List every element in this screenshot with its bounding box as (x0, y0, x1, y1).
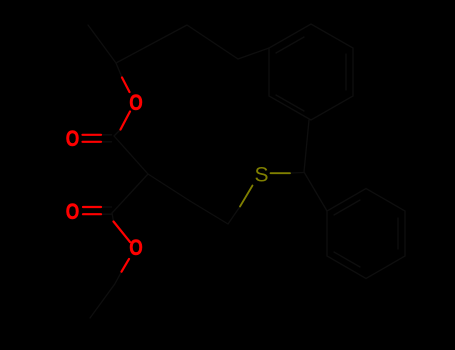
top long chain bond (116, 25, 187, 63)
M2-S dark half (228, 207, 240, 225)
svg-text:O: O (66, 200, 80, 224)
svg-text:S: S (255, 163, 269, 186)
O1-CH2 red half (122, 78, 130, 93)
bond C2-O4 dark half (112, 213, 114, 222)
S-T olive half (271, 172, 291, 174)
chain M1-M2 (190, 201, 228, 224)
bottom ethyl CH3 (90, 284, 115, 318)
ring A inner aromatic lines (276, 37, 346, 111)
bond C1-C0 (114, 136, 148, 174)
bond T-ringA (304, 120, 309, 172)
svg-text:O: O (66, 127, 80, 151)
S-T dark half (290, 172, 304, 175)
olive sulfur bonds (240, 173, 290, 206)
C1=O2 double bond red halves (83, 134, 102, 136)
C2=O3 dark halves (101, 206, 112, 208)
svg-text:O: O (129, 91, 143, 115)
chain into ring A (238, 48, 269, 59)
red oxygen bonds (83, 78, 131, 272)
S-M2 olive half (240, 186, 253, 207)
bond O4-CH2 dark half (115, 272, 122, 284)
chain C0-M1 (148, 174, 190, 201)
bond O1-C1 dark half (114, 130, 121, 137)
top chain descent (187, 25, 238, 59)
C2=O3 double bond red halves (83, 206, 101, 208)
O4-CH2 red half (122, 259, 130, 272)
bond T-ringC (304, 172, 327, 211)
faint carbon skeleton (88, 24, 405, 318)
ring A hexagon (269, 24, 353, 120)
svg-text:O: O (129, 236, 143, 260)
bond C0-C2 (112, 174, 148, 213)
ring C hexagon (327, 189, 405, 279)
C1=O2 dark halves (101, 134, 112, 136)
bond CH2-O1 dark half (116, 63, 122, 78)
top ethyl CH3-CH2 (88, 25, 116, 63)
C2-O4 red half (114, 222, 131, 243)
ring C inner aromatic lines (334, 200, 398, 267)
O1-C1 red half (121, 112, 131, 130)
